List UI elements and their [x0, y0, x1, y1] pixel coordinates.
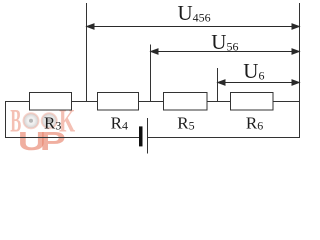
svg-text:R4: R4: [111, 113, 128, 132]
svg-text:U56: U56: [211, 30, 238, 54]
svg-text:R5: R5: [177, 113, 194, 132]
svg-text:U6: U6: [243, 59, 264, 83]
svg-text:R6: R6: [246, 113, 263, 132]
svg-text:U456: U456: [178, 1, 211, 25]
